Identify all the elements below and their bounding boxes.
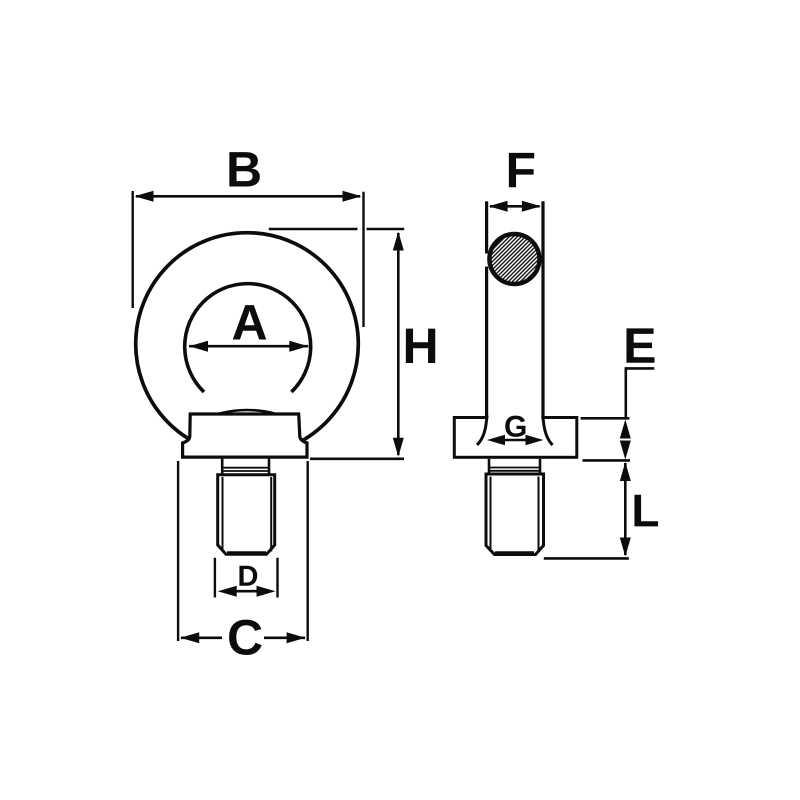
neck below collar (221, 457, 224, 474)
dimension L (624, 463, 627, 555)
collar side view (454, 418, 577, 458)
collar (boss) front view (183, 414, 307, 457)
svg-text:A: A (231, 294, 267, 350)
thread crest lines (222, 477, 224, 552)
svg-text:H: H (403, 318, 439, 374)
svg-text:E: E (623, 318, 656, 374)
thread runout lines (222, 467, 269, 469)
neck side view (488, 459, 491, 473)
dimension F (490, 205, 540, 208)
bar body mask over collar (488, 410, 541, 445)
dimension B (131, 191, 133, 308)
ring profile bar (485, 201, 488, 253)
dimension C (177, 461, 179, 641)
flare into collar (477, 415, 487, 445)
svg-text:D: D (238, 561, 259, 593)
svg-text:C: C (227, 609, 263, 665)
dimension G (503, 439, 527, 441)
ring-to-boss sag arc (220, 410, 275, 414)
threaded shank outline (218, 475, 275, 555)
threaded shank side view (486, 474, 544, 555)
dimension A (189, 345, 308, 348)
svg-text:G: G (504, 411, 527, 444)
ring outer circle (136, 233, 359, 456)
dimension D (214, 558, 216, 598)
svg-text:F: F (506, 142, 537, 198)
svg-text:B: B (226, 141, 262, 197)
ring inner circle (hole), bottom omitted (185, 284, 311, 392)
svg-text:L: L (631, 484, 659, 536)
ring cross-section circle hatched (489, 234, 539, 284)
dimension H (269, 228, 358, 231)
